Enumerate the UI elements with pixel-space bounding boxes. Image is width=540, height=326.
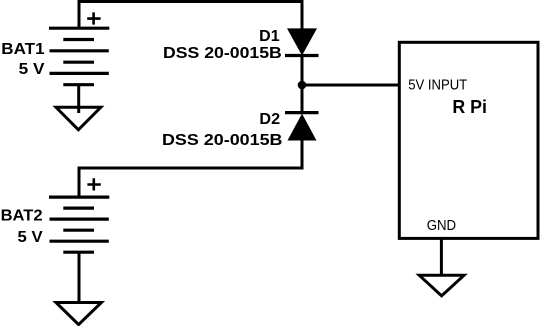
svg-text:D1: D1 bbox=[259, 28, 280, 45]
battery BAT1 plates bbox=[49, 28, 109, 84]
wire BAT2 positive stub bbox=[78, 168, 81, 198]
ground (BAT2) bbox=[56, 303, 101, 325]
junction node dot bbox=[298, 81, 307, 90]
wire vertical down to D1 anode bbox=[301, 2, 304, 31]
ground (BAT1) bbox=[56, 107, 101, 130]
svg-text:BAT2: BAT2 bbox=[1, 208, 43, 225]
diode D2 cathode bar bbox=[285, 111, 319, 114]
wire BAT1 positive stub bbox=[78, 2, 81, 30]
wire D1 cathode to D2 cathode bbox=[301, 56, 304, 113]
battery BAT1 plus sign bbox=[87, 12, 100, 24]
svg-text:DSS 20-0015B: DSS 20-0015B bbox=[162, 132, 283, 149]
svg-text:R Pi: R Pi bbox=[452, 96, 487, 117]
wire R Pi GND down bbox=[440, 238, 443, 276]
svg-text:D2: D2 bbox=[259, 111, 280, 128]
wire top horizontal BAT1+ to D1 bbox=[78, 0, 304, 3]
R Pi box U1 bbox=[399, 42, 538, 238]
svg-text:GND: GND bbox=[427, 218, 456, 234]
wire BAT2 negative stub bbox=[78, 252, 81, 303]
diode D1 triangle bbox=[287, 28, 317, 55]
battery BAT2 plates bbox=[49, 197, 109, 252]
svg-text:5 V: 5 V bbox=[19, 61, 45, 78]
svg-text:BAT1: BAT1 bbox=[1, 41, 45, 58]
svg-text:DSS 20-0015B: DSS 20-0015B bbox=[163, 45, 282, 62]
ground (R Pi) bbox=[419, 275, 464, 296]
diode D1 cathode bar bbox=[285, 54, 319, 57]
wire BAT1 negative stub bbox=[77, 85, 80, 113]
svg-text:5 V: 5 V bbox=[18, 229, 44, 246]
battery BAT2 plus sign bbox=[87, 178, 100, 190]
wire horizontal to BAT2 bbox=[78, 167, 304, 170]
svg-text:5V INPUT: 5V INPUT bbox=[408, 77, 467, 93]
diode D2 triangle bbox=[288, 114, 317, 141]
wire D2 anode down bbox=[301, 141, 304, 170]
wire node to R Pi 5V input bbox=[302, 84, 401, 87]
